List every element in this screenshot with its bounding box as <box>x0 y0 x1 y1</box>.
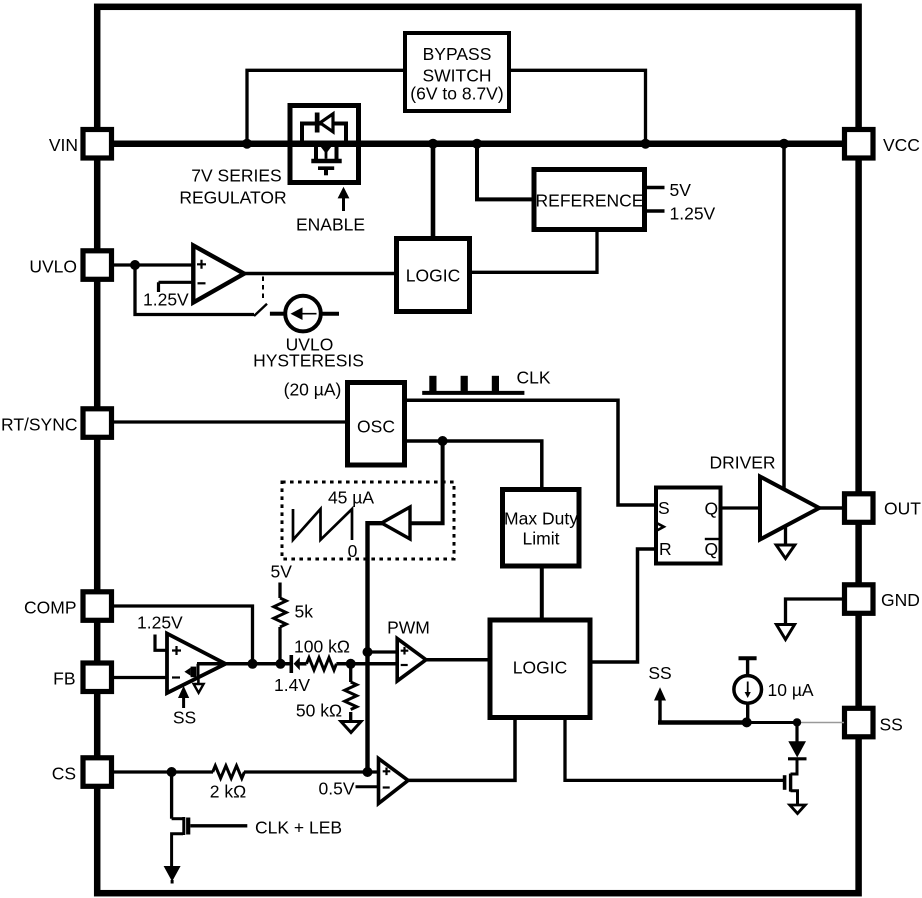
wire driver to OUT pin <box>819 506 844 510</box>
svg-text:FB: FB <box>53 669 75 689</box>
svg-text:5V: 5V <box>271 562 293 582</box>
dashed ramp generator box <box>282 482 454 559</box>
error amp SS clamp glyph <box>184 668 190 676</box>
wire bypass switch left leg <box>247 70 405 140</box>
resistor 5k <box>274 598 286 627</box>
wire comparator output to LOGIC <box>243 272 397 276</box>
wire error amp output <box>197 662 290 666</box>
svg-text:45 µA: 45 µA <box>328 488 374 508</box>
SS arrow into error amp <box>182 697 185 708</box>
wire VIN rail to REFERENCE <box>477 147 532 199</box>
svg-text:0.5V: 0.5V <box>319 779 355 799</box>
op-amp PWM comparator <box>397 639 426 682</box>
ground arrow CS fet <box>164 866 181 882</box>
junction SS diode <box>793 718 801 726</box>
svg-text:LOGIC: LOGIC <box>513 658 567 678</box>
svg-text:RT/SYNC: RT/SYNC <box>1 415 78 435</box>
block LOGIC lower <box>490 620 590 718</box>
junction VIN/REFERENCE <box>472 139 482 149</box>
svg-text:Q: Q <box>705 499 719 519</box>
junction bypass left on VIN rail <box>242 139 252 149</box>
ground open triangle 50k <box>341 722 361 733</box>
ground open triangle SS fet <box>790 805 805 814</box>
svg-text:2 kΩ: 2 kΩ <box>210 782 246 802</box>
wire SS rail <box>658 720 747 725</box>
pin UVLO <box>83 251 112 279</box>
dashed link to comparator output <box>262 277 264 303</box>
svg-text:SS: SS <box>880 715 903 735</box>
buffer amp (ramp) <box>382 507 410 539</box>
junction 10uA source <box>742 717 752 727</box>
op-amp CS comparator <box>379 759 409 804</box>
wire 5k to error amp output <box>278 627 281 664</box>
pin GND <box>845 585 874 614</box>
svg-text:S: S <box>658 498 670 518</box>
svg-text:LOGIC: LOGIC <box>406 266 460 286</box>
svg-text:SS: SS <box>648 663 671 683</box>
svg-text:1.4V: 1.4V <box>274 675 310 695</box>
wire down to 50k <box>349 664 352 682</box>
CLK waveform <box>422 391 524 395</box>
svg-text:5V: 5V <box>670 180 692 200</box>
wire ramp to buffer <box>410 441 443 523</box>
svg-text:VCC: VCC <box>883 135 920 155</box>
wire UVLO pin to comparator <box>112 263 193 266</box>
junction 100k/50k <box>346 659 356 669</box>
wire Q to driver <box>721 506 761 509</box>
wire 100k to PWM minus <box>336 662 397 666</box>
switch arm <box>254 304 267 316</box>
svg-text:SWITCH: SWITCH <box>422 66 491 86</box>
wire OSC ramp output <box>404 441 542 490</box>
svg-text:Q: Q <box>705 539 719 559</box>
pin VIN <box>83 130 112 159</box>
block LOGIC upper <box>397 239 470 312</box>
junction CS fet <box>167 767 177 777</box>
svg-text:0: 0 <box>348 541 358 561</box>
junction UVLO <box>130 260 140 270</box>
svg-text:CS: CS <box>52 764 76 784</box>
svg-text:COMP: COMP <box>24 598 77 618</box>
block BYPASS SWITCH <box>405 33 509 111</box>
svg-text:10 µA: 10 µA <box>768 680 814 700</box>
svg-text:OSC: OSC <box>357 417 395 437</box>
svg-text:DRIVER: DRIVER <box>709 453 775 473</box>
junction ramp <box>438 436 448 446</box>
wire bypass switch right leg <box>509 70 646 140</box>
pin CS <box>83 758 112 787</box>
wire PWM output to LOGIC <box>426 658 491 662</box>
amp DRIVER <box>760 477 819 540</box>
block OSC <box>348 383 405 466</box>
wire LOGIC to flip-flop R <box>590 549 656 662</box>
resistor 100 kOhm <box>307 658 337 670</box>
driver ground stub <box>784 527 787 545</box>
wire reference to LOGIC <box>472 232 597 272</box>
wire 5V stub <box>278 583 281 599</box>
regulator internal MOSFET <box>314 141 318 159</box>
current source UVLO hysteresis <box>270 312 285 316</box>
svg-text:1.25V: 1.25V <box>143 290 189 310</box>
junction VIN/LOGIC <box>428 139 438 149</box>
svg-text:5k: 5k <box>295 602 314 622</box>
wire OSC clock output to flip-flop S <box>404 400 656 505</box>
wire VIN rail to LOGIC <box>431 147 436 236</box>
pin VCC <box>845 130 874 159</box>
svg-text:GND: GND <box>881 590 920 610</box>
transistor CS blanking MOSFET <box>170 772 173 819</box>
svg-text:(6V to 8.7V): (6V to 8.7V) <box>410 84 503 104</box>
regulator internal diode loop wire <box>302 124 346 147</box>
wire buffer output down to PWM and CS <box>368 523 384 772</box>
svg-text:1.25V: 1.25V <box>670 204 716 224</box>
svg-text:ENABLE: ENABLE <box>296 215 365 235</box>
wire to PWM plus input <box>368 650 398 653</box>
pin OUT <box>845 494 874 523</box>
sawtooth waveform <box>293 509 352 540</box>
svg-text:SS: SS <box>173 708 196 728</box>
svg-text:7V SERIES: 7V SERIES <box>191 166 281 186</box>
junction driver feed on VIN rail <box>779 139 789 149</box>
junction bypass right on VIN rail <box>641 139 651 149</box>
wire CS pin to comparator <box>112 770 213 773</box>
ENABLE arrow <box>342 197 345 211</box>
diode clamp 1.4V <box>290 655 294 673</box>
block REFERENCE <box>534 170 645 230</box>
wire LOGIC to SS discharge gate <box>565 718 783 781</box>
wire FB pin to error amp minus <box>112 676 167 679</box>
resistor 2 kOhm <box>213 766 245 779</box>
wire 1.25V stub to comparator minus <box>159 282 194 292</box>
svg-text:BYPASS: BYPASS <box>423 44 492 64</box>
svg-text:PWM: PWM <box>387 618 430 638</box>
wire VCC rail to driver <box>782 147 786 489</box>
svg-text:CLK + LEB: CLK + LEB <box>255 818 342 838</box>
svg-text:HYSTERESIS: HYSTERESIS <box>253 351 364 371</box>
svg-text:UVLO: UVLO <box>29 257 77 277</box>
svg-text:(20 µA): (20 µA) <box>284 380 342 400</box>
block 7V series regulator <box>290 106 359 183</box>
svg-text:Max Duty: Max Duty <box>504 509 578 529</box>
wire VIN rail <box>112 140 844 147</box>
svg-text:CLK: CLK <box>517 368 551 388</box>
wire Max Duty to LOGIC lower <box>540 566 544 620</box>
op-amp error amplifier <box>167 634 226 694</box>
wire 50k to ground <box>349 712 352 722</box>
wire UVLO hysteresis feedback <box>135 265 254 315</box>
pin SS <box>845 708 874 737</box>
wire 0.5V stub <box>356 785 379 788</box>
junction ramp/CS <box>363 767 373 777</box>
junction COMP <box>248 659 258 669</box>
svg-text:100 kΩ: 100 kΩ <box>294 637 350 657</box>
op-amp UVLO comparator <box>193 246 244 303</box>
wire CS comparator output to LOGIC <box>408 718 515 781</box>
current source 10uA <box>739 656 757 660</box>
regulator internal diode <box>315 113 320 133</box>
pin RT/SYNC <box>83 409 112 438</box>
wire RT/SYNC to OSC <box>112 420 347 423</box>
wire reference 1.25V stub <box>647 209 665 213</box>
SS net arrow <box>658 699 661 723</box>
junction 5k <box>276 659 286 669</box>
wire COMP pin to error amp output <box>112 606 253 664</box>
resistor 50 kOhm <box>345 682 357 710</box>
transistor SS discharge MOSFET <box>791 759 798 774</box>
diode SS discharge <box>795 723 798 743</box>
junction PWM plus <box>363 647 373 657</box>
block Max Duty Limit <box>503 490 580 567</box>
pin COMP <box>83 592 112 621</box>
svg-text:VIN: VIN <box>49 135 78 155</box>
svg-text:R: R <box>659 539 672 559</box>
wire 1.25V stub to error amp plus <box>155 635 167 651</box>
svg-text:REGULATOR: REGULATOR <box>179 188 286 208</box>
svg-text:OUT: OUT <box>884 499 921 519</box>
wire GND pin to ground <box>786 599 847 624</box>
ground open triangle GND <box>776 625 794 640</box>
svg-text:REFERENCE: REFERENCE <box>536 191 644 211</box>
svg-text:1.25V: 1.25V <box>137 613 183 633</box>
flip-flop SR latch <box>656 488 721 564</box>
pin FB <box>83 663 112 692</box>
wire reference 5V stub <box>647 186 665 190</box>
svg-text:Limit: Limit <box>523 529 560 549</box>
svg-text:50 kΩ: 50 kΩ <box>296 701 342 721</box>
